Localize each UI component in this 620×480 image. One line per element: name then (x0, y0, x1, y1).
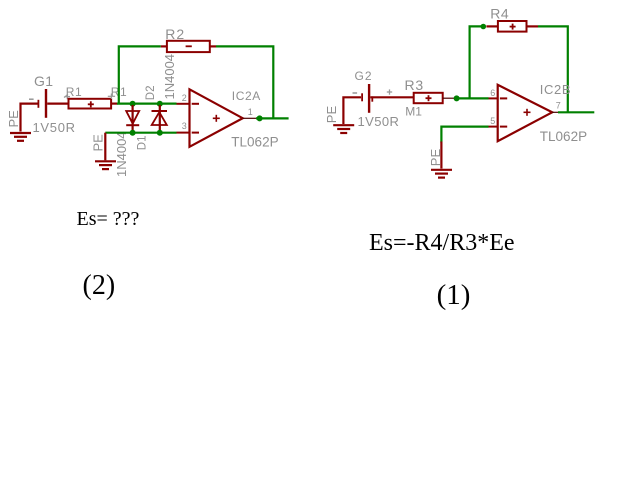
svg-text:(1): (1) (437, 279, 471, 311)
svg-text:PE: PE (428, 149, 443, 167)
svg-text:7: 7 (556, 101, 561, 111)
battery G2 minus mark (353, 92, 358, 94)
net: feedback right (R2 to output) (216, 46, 273, 118)
ground label PE (rotated) (428, 149, 443, 167)
label D2 (rotated) (145, 85, 157, 100)
svg-text:TL062P: TL062P (231, 135, 278, 150)
pin 6 (490, 88, 495, 98)
svg-text:PE: PE (91, 134, 106, 152)
battery G2 plus mark (387, 89, 392, 94)
battery G2 (362, 84, 372, 113)
pin 1 (248, 107, 253, 117)
svg-text:6: 6 (490, 88, 495, 98)
svg-text:(2): (2) (83, 270, 116, 301)
label IC2A (232, 89, 261, 103)
label R3 (405, 77, 425, 93)
label (2) (83, 270, 116, 301)
net: lower wire to op-amp non-inverting input (105, 132, 176, 134)
svg-text:D1: D1 (136, 135, 148, 150)
value 1N4004 (left, rotated) (114, 131, 129, 177)
svg-text:3: 3 (182, 121, 187, 131)
net: input node to op-amp inverting input (454, 97, 489, 99)
node junction R4 left (481, 24, 487, 30)
value M1 (405, 105, 422, 119)
svg-text:G2: G2 (355, 69, 373, 83)
svg-text:5: 5 (490, 116, 495, 126)
svg-text:PE: PE (6, 110, 21, 128)
label R2 (165, 26, 185, 42)
svg-text:R2: R2 (165, 26, 185, 42)
op-amp IC2A (177, 89, 258, 147)
equation Es=-R4/R3*Ee (369, 230, 515, 256)
ground label PE (rotated) (324, 106, 339, 124)
label R1 (value) (108, 85, 127, 99)
node junction D1 bottom (130, 130, 136, 136)
value 1V50R (33, 120, 76, 135)
label IC2B (540, 82, 571, 97)
svg-text:G1: G1 (34, 73, 53, 89)
value 1N4004 (right, rotated) (162, 54, 177, 100)
ground pin below diodes (104, 133, 106, 161)
pin 2 (182, 93, 187, 103)
op-amp IC2B (489, 85, 568, 141)
wire battery G1 minus to ground corner (21, 104, 39, 132)
ground label PE (rotated) (6, 110, 21, 128)
svg-text:Es=-R4/R3*Ee: Es=-R4/R3*Ee (369, 230, 515, 256)
svg-text:1N4004: 1N4004 (162, 54, 177, 100)
ground PE (left of G2) (333, 125, 354, 133)
node junction D2 top (157, 101, 163, 107)
net: lower wire to op-amp non-inverting input (441, 127, 488, 143)
value TL062P (540, 129, 587, 144)
svg-text:2: 2 (182, 93, 187, 103)
label R1 (name) (64, 85, 82, 99)
ground PE (left of G1) (10, 133, 31, 141)
svg-text:PE: PE (324, 106, 339, 124)
ground pin below non-inverting input (440, 142, 442, 169)
label (1) (437, 279, 471, 311)
label R4 (490, 6, 509, 22)
diode D1 (anode top, cathode bottom) (126, 105, 139, 132)
svg-text:1V50R: 1V50R (358, 114, 400, 129)
resistor R2 (161, 41, 216, 52)
svg-text:R4: R4 (490, 6, 509, 22)
battery G1 (38, 89, 46, 118)
svg-text:M1: M1 (405, 105, 422, 119)
svg-text:1N4004: 1N4004 (114, 131, 129, 177)
ground PE (below diodes) (95, 161, 116, 169)
node junction R3 out (454, 95, 460, 101)
resistor R1 (69, 99, 118, 109)
label D1 (rotated) (136, 135, 148, 150)
value TL062P (231, 135, 278, 150)
svg-text:R3: R3 (405, 77, 425, 93)
net: feedback left (input node to R4) (470, 26, 484, 98)
pin 7 (556, 101, 561, 111)
svg-text:Es= ???: Es= ??? (77, 208, 140, 230)
net: output of IC2B (558, 111, 594, 113)
node junction D2 bottom (157, 130, 163, 136)
ground label PE (rotated) (91, 134, 106, 152)
svg-text:TL062P: TL062P (540, 129, 587, 144)
label G1 (34, 73, 53, 89)
net: feedback right (R4 to output) (538, 26, 568, 112)
svg-text:1V50R: 1V50R (33, 120, 76, 135)
resistor R3 (414, 93, 455, 103)
wire G1 plus to R1 (47, 102, 68, 104)
svg-text:R1: R1 (66, 85, 82, 99)
svg-text:IC2B: IC2B (540, 82, 571, 97)
label G2 (355, 69, 373, 83)
battery G1 minus mark (29, 98, 34, 100)
battery G1 plus mark (65, 94, 70, 99)
node junction output IC2A (257, 115, 263, 121)
value 1V50R (358, 114, 400, 129)
diode D2 (cathode top, anode bottom) (152, 105, 168, 132)
ground PE (below +input) (431, 170, 452, 178)
node junction D1 top (130, 101, 136, 107)
pin 5 (490, 116, 495, 126)
wire battery G2 minus to ground corner (343, 97, 361, 124)
svg-text:D2: D2 (145, 85, 157, 100)
resistor R4 (486, 21, 538, 32)
net: output of IC2A (256, 117, 289, 119)
equation Es= ??? (77, 208, 140, 230)
pin 3 (182, 121, 187, 131)
svg-text:IC2A: IC2A (232, 89, 261, 103)
net: R1 out to op-amp inverting input (117, 102, 177, 104)
net: feedback left (R2 to input node) (119, 46, 161, 103)
svg-text:1: 1 (248, 107, 253, 117)
wire G2 plus to R3 (370, 96, 413, 98)
